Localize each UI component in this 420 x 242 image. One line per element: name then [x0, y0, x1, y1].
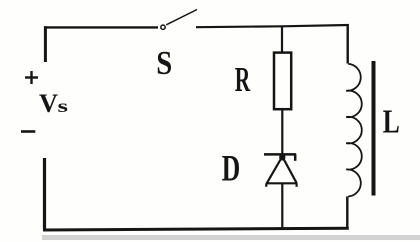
diode D triangle (anode) — [266, 157, 297, 187]
svg-text:R: R — [235, 60, 251, 99]
wire: diode anode to bottom wire — [281, 183, 283, 229]
svg-text:D: D — [222, 148, 241, 189]
wire: bottom horizontal — [43, 228, 349, 230]
svg-text:L: L — [383, 104, 400, 141]
voltage source Vs: + polarity mark — [25, 71, 38, 84]
voltage source Vs: label Vs — [39, 89, 68, 118]
wire: resistor branch drop (node A to R top) — [281, 26, 283, 52]
svg-text:s: s — [58, 96, 69, 116]
diode D cathode bar — [264, 153, 296, 156]
switch S lever blade — [166, 10, 197, 25]
diode D cathode bar right hook — [294, 154, 297, 160]
inductor L core bar — [372, 61, 376, 196]
svg-text:S: S — [156, 45, 172, 82]
wire: switch to node A (top middle horizontal) — [196, 25, 282, 28]
wire: node A to top-right corner — [282, 25, 349, 26]
wire: top-left horizontal (Vs+ lead to switch) — [44, 26, 158, 28]
wire: R bottom to diode D — [281, 109, 283, 154]
wire: right vertical upper (top-right corner to L) — [347, 24, 349, 64]
wire: right vertical lower (L to bottom-right corner) — [346, 196, 348, 229]
resistor R body — [274, 53, 291, 110]
voltage source Vs: − polarity mark — [21, 130, 35, 133]
wire: left vertical lower (Vs − lead) — [43, 158, 46, 229]
switch S pole terminal circle — [161, 25, 165, 29]
wire: left vertical upper (Vs + lead) — [44, 26, 47, 62]
svg-text:V: V — [39, 89, 58, 118]
diode D apex junction dot — [279, 154, 285, 160]
inductor L winding (5 turns) — [346, 64, 362, 197]
